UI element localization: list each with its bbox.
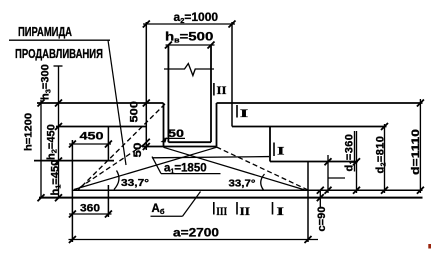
dim d1=360 line [356,131,358,193]
middle step right edge [269,127,271,162]
dim a=2700 line [69,239,319,241]
socket wall right [216,103,218,147]
dim d1 label connector stub [328,177,345,179]
pyramid base diagonal left [74,147,217,189]
dim a2=1000 arrows [143,21,236,28]
svg-text:Aб: Aб [152,203,165,216]
svg-text:III: III [216,204,227,218]
svg-text:h1=450: h1=450 [50,160,63,196]
bottom step right edge + extension to a dim [307,162,309,243]
svg-text:450: 450 [80,131,104,143]
dim h=1200 arrows [38,100,45,202]
svg-text:II: II [240,204,251,218]
dim 500 socket arrows [143,100,150,146]
svg-text:ПИРАМИДА: ПИРАМИДА [18,24,72,39]
svg-text:50: 50 [132,143,144,158]
top step right edge + a2 extension [231,22,233,127]
svg-text:I: I [240,106,249,120]
dim 360 arrows [69,211,112,218]
middle step left edge + 360 dim extension [107,127,109,218]
section mark I upper tick [236,105,238,118]
dim c=90 arrows [317,187,324,201]
svg-text:h2=450: h2=450 [46,124,59,160]
dim 50 socket arrows [143,143,150,150]
section mark I mid tick [273,143,275,157]
foundation top surface right with extension to dim d [217,102,423,104]
socket wall left [163,103,165,147]
dim d1 label underline [354,131,356,172]
bottom step surface right with extension to dim d1 [270,161,358,163]
dim d1 auxiliary arrows [325,158,332,193]
column bottom end [168,141,211,143]
svg-text:h=1200: h=1200 [23,113,35,151]
svg-text:a2=1000: a2=1000 [174,10,219,25]
dim 450 line [69,143,111,145]
section mark II lower tick [236,202,238,215]
svg-text:500: 500 [129,101,141,123]
scan artifact dot [428,244,431,249]
punching pyramid dashed line right 33.7deg [217,147,309,190]
foundation top surface left [37,102,164,104]
leader from title to pyramid dashed line [108,40,126,165]
socket floor [142,146,217,148]
dim hv=500 arrows [165,42,215,49]
top step left edge + a2 extension + 500/50 dim line [145,22,147,150]
pyramid base level line a1 [152,157,269,158]
svg-text:I: I [277,204,285,218]
svg-text:d=1110: d=1110 [410,129,422,175]
dim hv=500 line [166,44,215,46]
label Ab underline [151,215,183,217]
label a1 leader [152,157,161,174]
chain arrows [55,100,62,202]
title underline [9,39,110,41]
label 50 gap underline [165,137,186,139]
section mark II upper tick [213,83,215,96]
label 50 gap arrowhead [161,137,168,142]
pyramid base diagonal right [164,147,306,190]
column Q left edge [167,45,169,142]
dim d=1110 arrows [417,100,424,194]
title: ПИРАМИДА ПРОДАВЛИВАНИЯ [15,24,103,61]
svg-text:c=90: c=90 [316,207,328,232]
column right edge [210,45,212,142]
dim chain line h1 h2 h3 [58,66,60,198]
dim a2=1000 line [143,23,235,25]
middle step surface right with extension to dim d2 [232,126,387,128]
angle arc right [261,174,265,190]
blinding layer bottom line [39,197,423,199]
dim d1 auxiliary line at x=328 [327,155,329,193]
svg-text:360: 360 [80,203,100,215]
dim a=2700 arrows [69,236,312,243]
svg-text:hв=500: hв=500 [165,30,213,44]
svg-text:d2=810: d2=810 [375,136,388,174]
svg-text:ПРОДАВЛИВАНИЯ: ПРОДАВЛИВАНИЯ [15,46,103,61]
svg-text:I: I [277,144,285,158]
svg-text:33,7°: 33,7° [121,177,149,189]
dim d2=810 line [384,124,386,193]
section mark III lower tick [213,202,215,215]
foundation bottom [72,189,422,191]
punching pyramid dashed line left 45deg [78,104,165,190]
dim d=1110 line [419,99,421,193]
dim 450 arrows [69,141,112,148]
angle arc left [114,171,119,190]
label Ab leader [183,192,201,217]
column break symbol [164,64,214,76]
chain top serif [54,65,63,67]
section mark I lower tick [272,202,274,215]
dim 360 line [69,213,112,215]
label a1 underline [161,173,221,175]
dim d2=810 arrows [381,123,388,194]
bottom step surface left [34,160,114,162]
svg-text:II: II [217,83,227,97]
svg-text:33,7°: 33,7° [229,178,256,190]
svg-text:a=2700: a=2700 [173,226,219,240]
middle step surface left [56,126,146,128]
dim d1=360 arrows [353,158,360,193]
punching pyramid dashed line left 33.7deg [76,145,144,190]
bottom step left edge + extensions to 360 and a dims [71,140,73,242]
dim h=1200 line [40,100,42,198]
svg-text:h3=300: h3=300 [40,64,53,100]
dim c=90 line [319,190,321,208]
